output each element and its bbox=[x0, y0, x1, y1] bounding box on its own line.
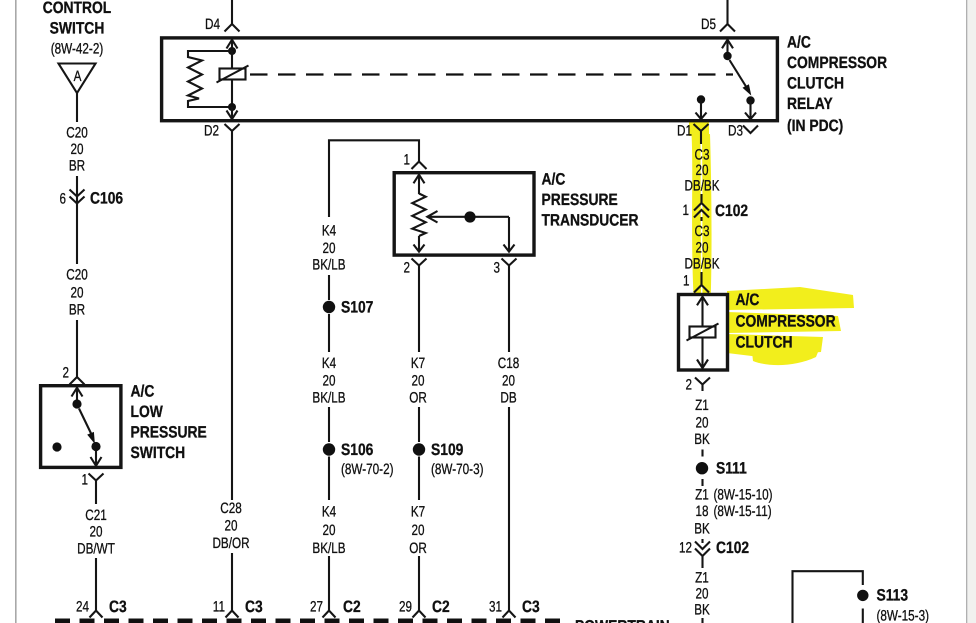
wire Z1 18 BK (S111 to C102) bbox=[694, 487, 772, 538]
wire riser S107 to transducer pin 1 bbox=[329, 140, 419, 217]
wire from fuse to relay pin D4 bbox=[231, 0, 233, 24]
svg-text:1: 1 bbox=[683, 202, 690, 219]
svg-text:20: 20 bbox=[696, 162, 709, 179]
svg-text:S113: S113 bbox=[877, 587, 909, 605]
svg-text:BR: BR bbox=[69, 302, 85, 319]
svg-text:DB/WT: DB/WT bbox=[77, 541, 115, 558]
wire C3 20 DB/BK (relay D1 to C102) bbox=[684, 138, 719, 203]
svg-text:RELAY: RELAY bbox=[787, 95, 833, 113]
svg-text:20: 20 bbox=[90, 524, 103, 541]
svg-text:C3: C3 bbox=[522, 598, 540, 616]
low pressure switch label bbox=[131, 383, 207, 463]
connector C106 pin 6 bbox=[60, 189, 124, 208]
wire C18 20 DB bbox=[498, 272, 520, 600]
splice S107 bbox=[323, 299, 374, 317]
svg-text:S106: S106 bbox=[341, 441, 373, 459]
svg-text:C28: C28 bbox=[220, 500, 242, 517]
svg-text:(8W-42-2): (8W-42-2) bbox=[51, 41, 104, 58]
svg-text:OR: OR bbox=[409, 390, 427, 407]
svg-text:(8W-70-2): (8W-70-2) bbox=[341, 461, 394, 478]
potentiometer resistive element bbox=[412, 194, 425, 237]
svg-text:C18: C18 bbox=[498, 355, 520, 372]
svg-text:C106: C106 bbox=[90, 190, 123, 208]
A/C compressor clutch relay box bbox=[162, 38, 778, 121]
clutch pin 1 bbox=[683, 273, 709, 293]
svg-text:1: 1 bbox=[683, 273, 690, 290]
svg-text:CLUTCH: CLUTCH bbox=[736, 334, 793, 352]
svg-text:C3: C3 bbox=[695, 223, 710, 240]
svg-text:TRANSDUCER: TRANSDUCER bbox=[542, 212, 639, 230]
svg-text:A/C: A/C bbox=[542, 171, 566, 189]
svg-text:C20: C20 bbox=[66, 267, 88, 284]
wire C3 20 DB/BK (C102 to clutch) bbox=[684, 223, 719, 278]
svg-text:S107: S107 bbox=[341, 299, 373, 317]
splice S109 bbox=[413, 441, 484, 478]
mechanical link (dashed) bbox=[250, 73, 733, 75]
low pressure switch pin 2 bbox=[63, 365, 85, 385]
svg-text:C3: C3 bbox=[245, 598, 263, 616]
svg-text:PRESSURE: PRESSURE bbox=[542, 191, 618, 209]
svg-text:C20: C20 bbox=[66, 125, 88, 142]
svg-text:A: A bbox=[74, 68, 82, 85]
transducer label bbox=[542, 171, 639, 230]
svg-text:(8W-15-10): (8W-15-10) bbox=[714, 487, 773, 504]
control switch label bbox=[43, 0, 112, 58]
svg-text:BK: BK bbox=[694, 521, 710, 538]
svg-text:6: 6 bbox=[60, 191, 67, 208]
svg-text:(IN PDC): (IN PDC) bbox=[787, 117, 843, 135]
svg-text:COMPRESSOR: COMPRESSOR bbox=[787, 54, 887, 72]
svg-text:27: 27 bbox=[310, 599, 323, 616]
svg-text:K4: K4 bbox=[322, 223, 336, 240]
svg-text:C3: C3 bbox=[695, 147, 710, 164]
PCM connector pin 31 C3 bbox=[489, 598, 540, 618]
svg-text:(8W-70-3): (8W-70-3) bbox=[431, 461, 484, 478]
wire C20 20 BR (lower) bbox=[66, 204, 88, 370]
svg-text:COMPRESSOR: COMPRESSOR bbox=[736, 313, 836, 331]
svg-text:POWERTRAIN: POWERTRAIN bbox=[575, 618, 670, 623]
transducer pin 2 internal arrow bbox=[414, 236, 425, 252]
svg-text:BK/LB: BK/LB bbox=[312, 390, 345, 407]
svg-text:K7: K7 bbox=[411, 504, 425, 521]
svg-text:(8W-15-11): (8W-15-11) bbox=[714, 503, 772, 520]
relay pin D3 internal arrow bbox=[745, 101, 756, 120]
svg-text:29: 29 bbox=[399, 599, 412, 616]
relay pin D1 node bbox=[697, 95, 705, 103]
svg-text:20: 20 bbox=[412, 522, 425, 539]
svg-text:20: 20 bbox=[696, 240, 709, 257]
svg-text:BK/LB: BK/LB bbox=[312, 257, 345, 274]
potentiometer wiper arrow bbox=[427, 211, 515, 252]
transducer pin 2 bbox=[404, 259, 427, 277]
svg-text:C102: C102 bbox=[716, 539, 749, 557]
svg-text:1: 1 bbox=[82, 472, 89, 489]
relay connector pin D5 bbox=[701, 16, 735, 33]
clutch pin 2 bbox=[686, 377, 711, 394]
svg-text:DB/BK: DB/BK bbox=[684, 178, 719, 195]
PCM connector pin 29 C2 bbox=[399, 598, 450, 618]
relay pin D4 internal arrow bbox=[227, 40, 238, 51]
transducer pin 1 bbox=[404, 152, 427, 170]
control switch symbol (triangle A) bbox=[59, 64, 96, 94]
wire C20 20 BR (upper) bbox=[66, 93, 88, 189]
svg-text:A/C: A/C bbox=[736, 291, 760, 309]
connector C102 pin 1 bbox=[683, 202, 749, 221]
svg-text:BK: BK bbox=[694, 431, 710, 448]
svg-text:12: 12 bbox=[679, 540, 692, 557]
splice S106 bbox=[323, 441, 394, 478]
relay switch arm bbox=[730, 60, 752, 96]
powertrain control module (dashed outline, partial) bbox=[55, 618, 670, 623]
ground wire through splice S113 bbox=[793, 571, 863, 623]
A/C pressure transducer box bbox=[394, 173, 534, 255]
svg-text:DB/BK: DB/BK bbox=[684, 256, 719, 273]
wire K7 20 OR (upper) bbox=[409, 272, 427, 442]
svg-text:2: 2 bbox=[404, 260, 411, 277]
svg-text:18: 18 bbox=[696, 503, 709, 520]
svg-text:C102: C102 bbox=[715, 202, 748, 220]
svg-text:Z1: Z1 bbox=[695, 570, 709, 587]
PCM connector pin 24 C3 bbox=[76, 598, 127, 618]
svg-text:PRESSURE: PRESSURE bbox=[131, 424, 207, 442]
wire K4 20 BK/LB (lower) bbox=[312, 457, 345, 601]
svg-text:D4: D4 bbox=[205, 16, 220, 33]
relay pin D1 internal arrow bbox=[696, 100, 707, 120]
resistor (suppression) bbox=[188, 51, 232, 107]
svg-text:SWITCH: SWITCH bbox=[131, 444, 186, 462]
wire K4 20 BK/LB (middle) bbox=[312, 314, 345, 442]
svg-text:D2: D2 bbox=[204, 123, 219, 140]
svg-text:A/C: A/C bbox=[131, 383, 155, 401]
svg-text:20: 20 bbox=[225, 518, 238, 535]
svg-text:(8W-15-3): (8W-15-3) bbox=[877, 608, 930, 623]
junction node (coil bottom) bbox=[228, 103, 236, 111]
relay label bbox=[787, 34, 887, 136]
relay pin D5 internal arrow bbox=[722, 40, 733, 57]
svg-text:OR: OR bbox=[409, 540, 427, 557]
clutch coil element bbox=[687, 324, 719, 341]
relay connector pin D4 bbox=[205, 16, 240, 33]
svg-text:20: 20 bbox=[696, 415, 709, 432]
relay pin D2 internal arrow bbox=[227, 107, 238, 119]
A/C compressor clutch coil box bbox=[679, 295, 728, 371]
transducer pin 1 internal arrow bbox=[414, 175, 425, 195]
svg-text:A/C: A/C bbox=[787, 34, 811, 52]
svg-text:CONTROL: CONTROL bbox=[43, 0, 112, 17]
relay pin D2 bbox=[204, 123, 240, 140]
svg-text:24: 24 bbox=[76, 599, 89, 616]
PCM connector pin 27 C2 bbox=[310, 598, 361, 618]
svg-text:DB/OR: DB/OR bbox=[212, 535, 249, 552]
svg-text:K4: K4 bbox=[322, 355, 336, 372]
svg-text:D3: D3 bbox=[728, 123, 743, 140]
svg-text:S111: S111 bbox=[716, 460, 747, 478]
highlight marker stripe on D1 wire bbox=[689, 120, 712, 295]
splice S111 bbox=[696, 460, 747, 487]
wire K7 20 OR (lower) bbox=[409, 457, 427, 601]
wire Z1 20 BK (C102 to ground) bbox=[694, 560, 710, 623]
wire K4 20 BK/LB (upper) bbox=[312, 223, 345, 301]
svg-text:SWITCH: SWITCH bbox=[50, 20, 105, 38]
transducer pin 3 bbox=[494, 259, 517, 277]
svg-text:BK: BK bbox=[694, 602, 710, 619]
wire D2 to PCM bbox=[231, 138, 233, 500]
svg-text:BK/LB: BK/LB bbox=[312, 540, 345, 557]
wire Z1 20 BK (clutch to S111) bbox=[694, 397, 710, 457]
svg-text:C21: C21 bbox=[85, 507, 107, 524]
svg-text:20: 20 bbox=[323, 522, 336, 539]
svg-text:CLUTCH: CLUTCH bbox=[787, 75, 844, 93]
wire from ignition to relay pin D5 bbox=[726, 0, 728, 24]
svg-text:20: 20 bbox=[71, 285, 84, 302]
svg-text:D5: D5 bbox=[701, 16, 716, 33]
svg-text:Z1: Z1 bbox=[695, 487, 709, 504]
relay switch pivot node bbox=[723, 52, 731, 60]
relay coil K1 bbox=[217, 51, 249, 107]
svg-text:2: 2 bbox=[686, 377, 693, 394]
svg-text:31: 31 bbox=[489, 599, 502, 616]
svg-text:C2: C2 bbox=[432, 598, 450, 616]
svg-text:Z1: Z1 bbox=[695, 397, 709, 414]
highlight marker on A/C COMPRESSOR CLUTCH label bbox=[727, 287, 854, 365]
clutch pin 2 internal arrow bbox=[697, 338, 708, 369]
wire C21 20 DB/WT bbox=[77, 507, 115, 600]
svg-text:20: 20 bbox=[323, 373, 336, 390]
wire label C28 20 DB/OR bbox=[212, 500, 249, 600]
svg-text:K7: K7 bbox=[411, 355, 425, 372]
low pressure switch internal contacts bbox=[52, 388, 101, 466]
svg-text:20: 20 bbox=[696, 586, 709, 603]
svg-text:D1: D1 bbox=[677, 123, 692, 140]
svg-text:C2: C2 bbox=[343, 598, 361, 616]
svg-text:20: 20 bbox=[71, 141, 84, 158]
svg-text:3: 3 bbox=[494, 260, 501, 277]
svg-text:DB: DB bbox=[500, 390, 516, 407]
svg-text:2: 2 bbox=[63, 365, 70, 382]
svg-text:C3: C3 bbox=[109, 598, 127, 616]
junction node (coil top) bbox=[228, 47, 236, 55]
A/C low pressure switch box bbox=[41, 386, 121, 468]
svg-text:K4: K4 bbox=[322, 504, 336, 521]
clutch label bbox=[736, 291, 836, 352]
svg-text:1: 1 bbox=[404, 152, 411, 169]
PCM connector pin 11 C3 bbox=[213, 598, 263, 618]
svg-text:BR: BR bbox=[69, 158, 85, 175]
relay pin D1 bbox=[677, 123, 709, 140]
relay pin D3 bbox=[728, 123, 758, 140]
svg-text:11: 11 bbox=[213, 599, 225, 616]
svg-text:20: 20 bbox=[502, 373, 515, 390]
svg-text:20: 20 bbox=[412, 373, 425, 390]
relay switch contact node bbox=[746, 96, 754, 104]
low pressure switch pin 1 bbox=[82, 472, 104, 505]
svg-text:S109: S109 bbox=[431, 441, 463, 459]
splice S113 bbox=[857, 587, 929, 623]
connector C102 pin 12 bbox=[679, 539, 749, 560]
svg-text:20: 20 bbox=[323, 240, 336, 257]
clutch pin 1 internal arrow bbox=[697, 297, 708, 327]
svg-text:LOW: LOW bbox=[131, 403, 164, 421]
